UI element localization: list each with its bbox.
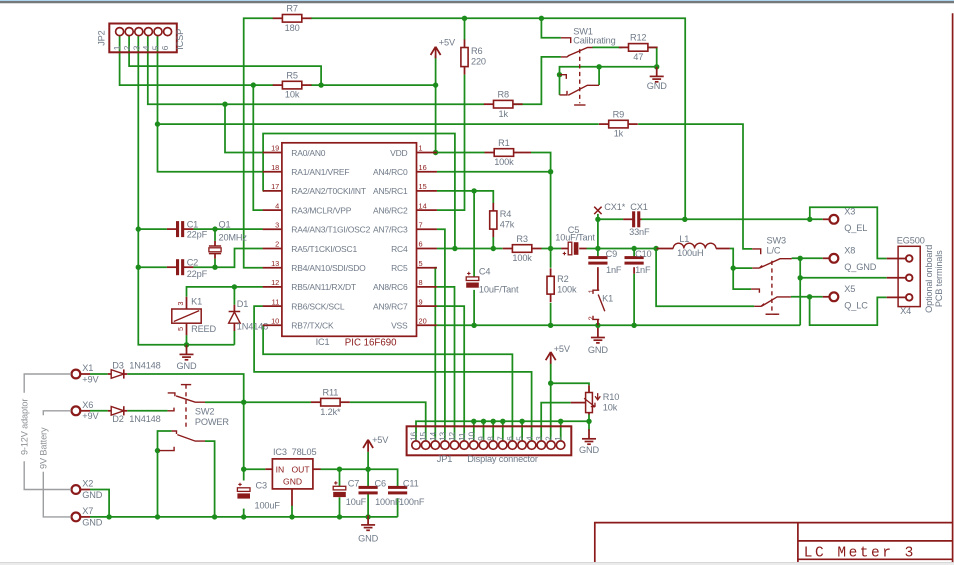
switch SW2 lower bracket top	[172, 431, 177, 434]
wire RC4 row	[437, 248, 503, 250]
wire row to R9	[158, 123, 599, 125]
svg-text:1nF: 1nF	[635, 265, 651, 275]
svg-text:Display connector: Display connector	[467, 454, 538, 464]
svg-text:19: 19	[271, 144, 279, 153]
wire VSS GND row	[437, 324, 800, 326]
svg-text:1N4148: 1N4148	[129, 361, 160, 371]
wire JP1 pin9 ground stub	[483, 421, 485, 441]
svg-text:C7: C7	[348, 478, 359, 488]
svg-text:R8: R8	[497, 90, 508, 100]
svg-text:R3: R3	[516, 234, 527, 244]
connector JP2 ICSP	[109, 24, 177, 53]
svg-text:1k: 1k	[614, 129, 624, 139]
svg-text:IC1: IC1	[316, 337, 330, 347]
svg-text:K1: K1	[191, 297, 202, 307]
resistor R2	[547, 268, 577, 302]
wire D2 to SW2	[127, 410, 167, 412]
svg-text:5: 5	[151, 45, 161, 50]
relay contact K1	[593, 290, 605, 325]
svg-text:1N4148: 1N4148	[129, 414, 160, 424]
wire C2 row to RA5	[193, 249, 263, 268]
wire IC3 IN row	[244, 468, 266, 470]
wire ICSP pin1 to R5 row	[120, 36, 274, 85]
svg-text:1.2k*: 1.2k*	[320, 407, 341, 417]
svg-text:R7: R7	[286, 4, 297, 14]
wire Q1 top	[214, 229, 216, 241]
resistor R5	[273, 70, 312, 99]
wire R2 top	[550, 249, 552, 268]
connector X2	[72, 485, 81, 494]
svg-text:Q_EL: Q_EL	[844, 223, 867, 233]
wire RB6 to JP1 pin4	[254, 306, 531, 441]
svg-text:7: 7	[495, 436, 505, 441]
switch SW3 lower pole contact	[754, 304, 764, 307]
svg-text:Q_LC: Q_LC	[844, 300, 868, 310]
connector X3 stub	[823, 218, 830, 220]
svg-text:PCB terminals: PCB terminals	[934, 250, 944, 307]
svg-text:AN5/RC1: AN5/RC1	[373, 186, 408, 196]
wire SW3 lower to X5	[791, 296, 823, 298]
switch SW2 upper lever	[176, 396, 205, 402]
svg-text:RB5/AN11/RX/DT: RB5/AN11/RX/DT	[291, 282, 356, 292]
svg-text:RB4/AN10/SDI/SDO: RB4/AN10/SDI/SDO	[291, 263, 366, 273]
switch SW3 lower lever	[762, 297, 791, 306]
svg-text:5: 5	[176, 327, 185, 331]
svg-text:15: 15	[418, 431, 428, 440]
svg-text:AN6/RC2: AN6/RC2	[373, 205, 408, 215]
wire RC3 to JP1 pin13	[437, 229, 445, 441]
wire X6 to D2	[90, 410, 108, 412]
wire R7 left to RB4	[244, 18, 273, 267]
wire JP1 pin7 ground stub	[502, 421, 504, 441]
svg-text:OUT: OUT	[291, 465, 310, 475]
wire SW1 lower row	[560, 67, 657, 95]
svg-text:Calibrating: Calibrating	[573, 36, 615, 46]
svg-text:X4: X4	[900, 306, 911, 316]
svg-text:18: 18	[271, 163, 279, 172]
wire R2 bottom	[550, 303, 552, 326]
switch SW2 actuator	[185, 385, 187, 431]
wire R10 bottom	[588, 414, 590, 421]
wire R12 right to GND	[648, 47, 657, 66]
svg-text:10k: 10k	[285, 90, 300, 100]
resistor R11	[311, 388, 350, 417]
relay coil K1	[172, 297, 201, 335]
svg-text:Q1: Q1	[219, 219, 231, 229]
switch SW3 upper lever	[760, 259, 792, 268]
svg-text:X6: X6	[82, 400, 93, 410]
wire R11 to JP1 pin15	[350, 402, 426, 441]
svg-text:RB6/SCK/SCL: RB6/SCK/SCL	[291, 301, 345, 311]
capacitor C4 leads	[473, 276, 475, 279]
+5V supply display	[546, 344, 571, 364]
svg-text:10uF: 10uF	[346, 497, 367, 507]
wire CX1 right to X3 and EG500	[642, 218, 823, 220]
wire CX1 row to X3	[598, 218, 623, 220]
wire CX1 node left	[597, 214, 599, 249]
wire RC1 node to C4	[473, 191, 475, 277]
wire RC5 to JP1 pin14	[435, 268, 437, 442]
wire C6 bottom	[367, 494, 369, 517]
marker CX1*	[594, 207, 601, 214]
svg-text:C1: C1	[187, 220, 198, 230]
svg-text:JP1: JP1	[437, 454, 452, 464]
wire ICSP pin3 GND run	[138, 36, 234, 345]
resistor R9	[599, 109, 638, 138]
svg-text:RA4/AN3/T1GI/OSC2: RA4/AN3/T1GI/OSC2	[291, 225, 370, 235]
bracket 9-12V adaptor line	[24, 374, 71, 490]
connector X8	[829, 254, 838, 263]
ground below K1 contact	[588, 328, 608, 355]
svg-text:Q_GND: Q_GND	[844, 262, 876, 272]
svg-text:JP2: JP2	[97, 30, 107, 45]
svg-text:LC Meter 3: LC Meter 3	[804, 545, 916, 561]
wire node to C5 row	[550, 172, 552, 249]
switch SW1 actuator bar	[574, 104, 585, 106]
connector X1 stub	[80, 373, 90, 375]
wire X1 to D3	[90, 373, 108, 375]
resistor R7	[273, 4, 312, 33]
svg-text:33nF: 33nF	[629, 227, 650, 237]
svg-text:6: 6	[160, 45, 170, 50]
svg-text:X2: X2	[82, 479, 93, 489]
switch SW1 pole contact	[561, 55, 570, 57]
svg-text:GND: GND	[283, 476, 302, 486]
svg-text:REED: REED	[191, 324, 216, 334]
wire +5V to JP1 pin2	[550, 364, 552, 442]
svg-text:RA5/T1CKI/OSC1: RA5/T1CKI/OSC1	[291, 244, 357, 254]
wire C10 top	[633, 249, 635, 258]
wire ICSP pin5 to RA1	[158, 36, 263, 172]
wire power node down to IC3	[243, 402, 245, 469]
svg-text:R11: R11	[323, 388, 339, 398]
svg-text:16: 16	[409, 431, 419, 440]
svg-text:1: 1	[553, 436, 563, 441]
switch SW2 throw from D2	[168, 408, 174, 411]
svg-text:GND: GND	[82, 517, 102, 527]
wire X8 row to EG500	[800, 277, 887, 279]
svg-text:+5V: +5V	[554, 344, 571, 354]
svg-text:13: 13	[271, 259, 279, 268]
svg-text:AN9/RC7: AN9/RC7	[373, 301, 408, 311]
svg-text:12: 12	[447, 431, 457, 440]
wire C2 row left	[138, 266, 167, 268]
svg-text:AN7/RC3: AN7/RC3	[373, 225, 408, 235]
svg-text:C2: C2	[187, 258, 198, 268]
wire R7 row to R6	[464, 18, 466, 40]
svg-text:4: 4	[524, 436, 534, 441]
svg-text:D2: D2	[112, 414, 123, 424]
svg-text:RA3/MCLR/VPP: RA3/MCLR/VPP	[291, 205, 351, 215]
wire SW3 to X8	[792, 257, 823, 259]
wire C6 top	[367, 469, 369, 488]
capacitor C2	[176, 259, 184, 275]
svg-text:6: 6	[419, 240, 423, 249]
voltage regulator IC3 78L05	[265, 459, 320, 506]
wire R10 top	[551, 383, 589, 385]
switch SW3 upper bracket	[752, 249, 761, 254]
capacitor C3	[237, 483, 250, 499]
resistor R4	[490, 203, 515, 237]
crystal Q1	[209, 219, 248, 258]
svg-text:EG500: EG500	[897, 236, 925, 246]
svg-text:D1: D1	[237, 299, 248, 309]
wire C4 to GND row	[473, 290, 475, 325]
svg-text:CX1*: CX1*	[604, 202, 625, 212]
svg-text:RA1/AN1/VREF: RA1/AN1/VREF	[291, 167, 349, 177]
svg-text:R4: R4	[500, 209, 511, 219]
op-amp U1 microcontroller IC1 PIC 16F690	[263, 143, 437, 336]
svg-text:8: 8	[419, 278, 423, 287]
wire C3 top	[243, 469, 245, 480]
diode D2	[111, 406, 124, 415]
wire RA2 wrap around IC1	[263, 134, 455, 249]
title block	[595, 523, 953, 565]
switch SW3 lower throw bracket	[751, 289, 759, 293]
svg-text:RA2/AN2/T0CKI/INT: RA2/AN2/T0CKI/INT	[291, 186, 366, 196]
wire R6 to RC2	[437, 75, 465, 211]
svg-text:8: 8	[486, 436, 496, 441]
potentiometer R10	[571, 385, 620, 414]
svg-text:3: 3	[275, 221, 279, 230]
switch SW1 throw bracket	[561, 38, 571, 43]
capacitor C7	[333, 481, 346, 497]
svg-text:1: 1	[419, 144, 423, 153]
svg-text:100k: 100k	[494, 157, 514, 167]
wire X5 to EG500 pin3	[810, 297, 887, 325]
ground below C6	[358, 515, 378, 543]
wire SW2 lever to GND row	[205, 441, 215, 517]
wire Q1 bottom	[214, 259, 216, 268]
capacitor C1	[176, 221, 184, 237]
switch SW1 lever	[568, 48, 593, 56]
switch SW2 upper throw bracket	[168, 393, 175, 396]
svg-text:16: 16	[419, 163, 427, 172]
diode D2 leads	[108, 410, 111, 412]
svg-text:1k: 1k	[498, 109, 508, 119]
capacitor C9	[588, 256, 607, 264]
wire X8 node down to GND row	[799, 258, 801, 325]
bracket 9V Battery line	[43, 411, 71, 517]
ground below K1	[177, 345, 197, 371]
wire RC1 to R4	[437, 191, 494, 203]
wire bottom GND row	[90, 516, 398, 518]
wire +5V to VDD	[435, 56, 437, 153]
svg-text:220: 220	[471, 56, 486, 66]
svg-text:47k: 47k	[500, 219, 515, 229]
wire RB7 to JP1 pin6	[263, 325, 512, 441]
wire VDD to R1	[437, 152, 485, 154]
svg-text:GND: GND	[82, 490, 102, 500]
svg-text:+5V: +5V	[439, 38, 456, 48]
svg-text:100k: 100k	[557, 285, 577, 295]
inductor L1	[657, 234, 730, 258]
connector X2 stub	[80, 489, 90, 491]
diode D3	[111, 369, 124, 378]
svg-text:2: 2	[275, 240, 279, 249]
svg-text:X3: X3	[844, 207, 855, 217]
capacitor C4	[466, 272, 479, 288]
wire R8 node to RA0	[225, 104, 263, 152]
wire R9 to SW3 bracket	[638, 124, 752, 249]
svg-text:RB7/TX/CK: RB7/TX/CK	[291, 321, 334, 331]
connector X6	[72, 406, 81, 415]
svg-text:5: 5	[515, 436, 525, 441]
svg-text:+9V: +9V	[82, 374, 99, 384]
wire D1 top	[233, 287, 235, 305]
wire SW3 pole upper	[733, 267, 752, 269]
svg-text:1N4148: 1N4148	[237, 322, 268, 332]
wire SW1 pole from R8	[513, 57, 561, 104]
svg-text:X5: X5	[844, 284, 855, 294]
svg-text:VDD: VDD	[390, 148, 407, 158]
wire C5 node to SW3 lower pole	[656, 249, 754, 307]
capacitor C6	[359, 486, 378, 495]
connector X7 stub	[80, 516, 90, 518]
svg-text:1: 1	[112, 45, 122, 50]
wire L1 right to SW3	[730, 249, 751, 290]
resistor R6	[461, 40, 486, 75]
svg-text:10: 10	[271, 317, 279, 326]
svg-text:100uH: 100uH	[677, 248, 703, 258]
svg-text:2: 2	[122, 45, 132, 50]
wire C5 to L1 row	[586, 248, 656, 250]
svg-text:6: 6	[505, 436, 515, 441]
svg-text:D3: D3	[112, 361, 123, 371]
wire C3 bottom	[243, 509, 245, 517]
wire C9 top	[597, 249, 599, 258]
capacitor C10 bottom lead	[633, 267, 635, 274]
wire JP1 pin1 ground stub	[560, 421, 562, 441]
svg-text:R10: R10	[603, 392, 619, 402]
wire ICSP pin2 to R5 right	[129, 36, 321, 85]
svg-text:10k: 10k	[603, 403, 618, 413]
svg-text:11: 11	[272, 297, 280, 306]
svg-text:180: 180	[285, 23, 300, 33]
svg-text:SW3: SW3	[767, 235, 786, 245]
svg-text:13: 13	[438, 431, 448, 440]
svg-text:22pF: 22pF	[187, 229, 208, 239]
wire D3 to power node	[127, 374, 243, 402]
svg-text:11: 11	[457, 432, 467, 441]
svg-text:9: 9	[476, 436, 486, 441]
switch SW2 pole bracket	[159, 447, 174, 451]
switch SW1 lower throw bracket	[560, 91, 568, 95]
wire JP1 ground row	[416, 421, 589, 441]
svg-text:R6: R6	[471, 46, 482, 56]
svg-text:1: 1	[587, 289, 596, 293]
svg-text:X7: X7	[82, 506, 93, 516]
connector X3	[829, 215, 838, 224]
svg-text:GND: GND	[647, 81, 667, 91]
svg-text:20: 20	[419, 317, 427, 326]
svg-text:3: 3	[176, 301, 185, 305]
wire JP1 pin10 ground stub	[473, 421, 475, 441]
resistor R3	[503, 234, 542, 263]
svg-text:R5: R5	[286, 70, 297, 80]
svg-text:AN4/RC0: AN4/RC0	[373, 167, 408, 177]
capacitor CX1	[632, 211, 640, 227]
svg-text:14: 14	[428, 431, 438, 440]
wire JP1 pin8 ground stub	[492, 421, 494, 441]
svg-text:10uF/Tant: 10uF/Tant	[555, 232, 595, 242]
terminal X4 pin1	[906, 255, 913, 262]
connector X5 stub	[823, 296, 830, 298]
wire C11 bottom	[397, 498, 399, 517]
svg-text:C3: C3	[256, 481, 267, 491]
capacitor C9 bottom lead	[597, 267, 599, 289]
wire IC3 OUT row to C11	[321, 469, 398, 488]
svg-text:17: 17	[271, 182, 279, 191]
wire IC3 GND lead	[291, 506, 293, 517]
+5V supply regulator	[363, 435, 389, 452]
svg-text:C10: C10	[635, 249, 651, 259]
svg-text:100k: 100k	[512, 253, 532, 263]
wire RB5 row to K1 coil	[187, 287, 263, 297]
svg-text:X1: X1	[82, 363, 93, 373]
connector X8 stub	[823, 257, 830, 259]
wire D1 bottom	[233, 331, 235, 345]
svg-text:100nF: 100nF	[375, 497, 401, 507]
svg-text:GND: GND	[579, 445, 599, 455]
svg-text:R2: R2	[557, 274, 568, 284]
svg-text:1nF: 1nF	[606, 265, 622, 275]
svg-text:X8: X8	[844, 246, 855, 256]
switch SW2 actuator bar	[181, 384, 191, 386]
connector JP1 display	[407, 426, 572, 455]
svg-text:2: 2	[587, 316, 596, 320]
svg-text:100nF: 100nF	[399, 497, 425, 507]
svg-text:R1: R1	[498, 138, 509, 148]
svg-text:K1: K1	[602, 294, 613, 304]
svg-text:IC3 78L05: IC3 78L05	[273, 447, 316, 457]
diode D3 leads	[108, 373, 111, 375]
svg-text:10: 10	[466, 431, 476, 440]
resistor R8	[484, 90, 523, 119]
svg-text:9V Battery: 9V Battery	[39, 427, 49, 469]
wire SW1 throw from R7 row	[541, 18, 561, 38]
wire R10 wiper to JP1 pin3	[541, 403, 571, 442]
switch SW2 lower lever	[177, 435, 205, 442]
resistor R1	[485, 138, 524, 167]
svg-text:5: 5	[419, 259, 423, 268]
svg-text:100uF: 100uF	[255, 500, 281, 510]
+5V supply top	[431, 38, 456, 59]
capacitor C2 leads	[167, 266, 177, 268]
connector X7	[72, 512, 81, 521]
svg-text:SW2: SW2	[195, 407, 214, 417]
wire SW1 lever to R12	[592, 46, 622, 48]
wire R5 right to +5V	[311, 84, 436, 86]
svg-text:VSS: VSS	[391, 321, 408, 331]
svg-text:Optional onboard: Optional onboard	[924, 245, 934, 313]
connector X6 stub	[80, 410, 90, 412]
resistor R12	[619, 33, 658, 62]
svg-text:AN8/RC6: AN8/RC6	[373, 282, 408, 292]
wire K1 coil bottom	[186, 335, 188, 345]
svg-text:POWER: POWER	[195, 417, 229, 427]
diode D1	[229, 305, 241, 331]
terminal X4 pin2	[906, 275, 913, 282]
svg-text:CX1: CX1	[630, 202, 647, 212]
svg-text:GND: GND	[177, 361, 197, 371]
svg-text:10uF/Tant: 10uF/Tant	[479, 285, 519, 295]
capacitor C11	[388, 486, 407, 495]
svg-text:RC4: RC4	[391, 244, 408, 254]
connector X5	[829, 292, 838, 301]
switch SW3 actuator bar	[766, 313, 780, 315]
resistor R1 right lead ext	[523, 152, 531, 154]
